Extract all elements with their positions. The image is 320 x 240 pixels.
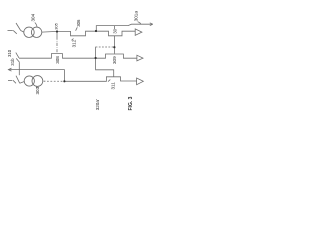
svg-text:31b: 31b [10,58,15,66]
svg-text:310: 310 [7,49,12,57]
svg-text:304: 304 [31,13,36,21]
svg-text:311: 311 [111,82,116,90]
svg-text:30: 30 [113,28,118,33]
svg-text:301a: 301a [134,11,139,22]
svg-text:308: 308 [55,56,60,64]
svg-text:303: 303 [35,86,40,94]
svg-text:305: 305 [53,22,58,29]
svg-text:312: 312 [71,39,76,47]
svg-text:320a': 320a' [95,99,100,110]
svg-text:306: 306 [76,19,81,27]
svg-text:309: 309 [112,56,117,64]
svg-text:FIG. 3: FIG. 3 [128,96,134,110]
